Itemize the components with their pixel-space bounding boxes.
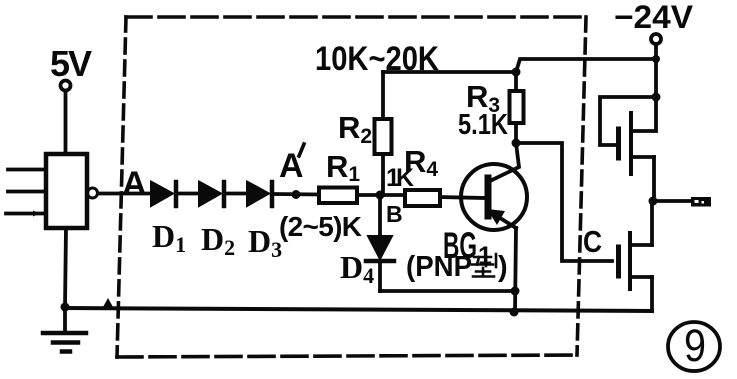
svg-text:A: A: [122, 165, 147, 203]
wire 5V to gate: [64, 91, 68, 154]
lower MOSFET V2 source lead: [632, 275, 652, 279]
svg-text:−24V: −24V: [614, 0, 694, 35]
svg-text:10K~20K: 10K~20K: [315, 40, 439, 78]
output node dot: [649, 197, 658, 206]
lower MOSFET V2 gate bar: [616, 247, 621, 276]
svg-text:5.1K: 5.1K: [458, 109, 508, 141]
wire D3 to R1: [274, 192, 319, 196]
arrowhead on input 3: [33, 211, 40, 217]
emitter rail: [515, 228, 516, 313]
gate output bubble: [88, 188, 98, 198]
junction dot emitter bottom: [510, 308, 519, 317]
svg-text:5V: 5V: [50, 43, 92, 84]
resistor R2: [381, 72, 385, 119]
wire V2 source to bottom rail: [650, 277, 654, 311]
output wire: [653, 199, 694, 203]
diode D2: [199, 182, 221, 207]
wire V1 source to output node: [652, 157, 656, 201]
wire D4 to emitter rail: [380, 289, 516, 293]
gate input wire 1: [8, 168, 46, 172]
wire bubble to D1: [98, 192, 151, 196]
wire R4 to base: [440, 197, 485, 198]
node B dot: [376, 191, 385, 200]
gate bottom lead: [65, 228, 66, 307]
lower MOSFET V2 channel bar: [628, 233, 632, 289]
gate input wire 3: [6, 212, 46, 216]
collector lead: [490, 143, 519, 181]
glyph xing: [474, 256, 491, 259]
upper MOSFET V1 drain lead: [633, 129, 655, 133]
junction dot left: [61, 303, 70, 312]
wire R1 to B: [357, 193, 405, 197]
upper MOSFET V1 gate bar: [616, 129, 621, 158]
junction dot emitter/D4: [511, 287, 520, 296]
svg-text:(PNP: (PNP: [406, 251, 472, 283]
output terminal blob: [691, 197, 711, 207]
resistor R3: [514, 72, 518, 91]
dashed box: [117, 17, 586, 357]
junction dot R3 top: [512, 68, 521, 77]
arrow on bottom wire: [103, 298, 113, 307]
junction dot -24V wire: [652, 55, 660, 63]
resistor R4: [405, 190, 440, 206]
svg-text:1K: 1K: [386, 164, 414, 192]
svg-text:B: B: [386, 201, 403, 227]
upper MOSFET V1 gate wire: [600, 97, 656, 145]
svg-text:C: C: [583, 224, 602, 259]
wire D1-D2: [178, 192, 199, 196]
junction dot collector: [512, 139, 521, 148]
diode D3: [247, 182, 269, 207]
diode D1: [151, 182, 173, 207]
ground: [63, 307, 67, 333]
terminal -24V: [651, 34, 661, 44]
bottom wire: [65, 308, 652, 311]
gate U1 box: [46, 154, 87, 228]
upper MOSFET V1 channel bar: [629, 113, 633, 174]
lower MOSFET V2 drain lead: [632, 243, 652, 247]
wire collector to lower gate: [516, 143, 612, 261]
emitter lead: [489, 211, 516, 228]
upper MOSFET V1 source lead: [633, 155, 654, 159]
transistor BG1 base bar: [485, 178, 492, 216]
terminal 5V: [61, 81, 71, 91]
-24V rail: [654, 44, 658, 131]
transistor BG1 body circle: [461, 164, 527, 230]
svg-text:9: 9: [684, 320, 706, 371]
top wire 10K~20K: [383, 70, 516, 74]
wire V2 drain to output node: [650, 202, 654, 245]
gate input wire 2: [8, 190, 46, 194]
svg-text:(2~5)K: (2~5)K: [279, 211, 362, 242]
svg-text:): ): [498, 251, 508, 283]
figure number 9: [668, 322, 720, 371]
wire D2-D3: [226, 192, 247, 196]
resistor R1: [319, 188, 357, 204]
diode D4: [378, 195, 382, 236]
node A' dot: [292, 190, 301, 199]
